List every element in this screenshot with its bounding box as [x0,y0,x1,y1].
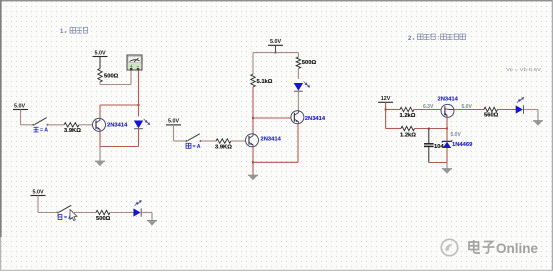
svg-text:1.2kΩ: 1.2kΩ [400,113,416,119]
svg-text:500Ω: 500Ω [302,60,317,66]
svg-text:500Ω: 500Ω [104,74,119,80]
svg-text:560Ω: 560Ω [484,113,499,119]
svg-text:1N4469: 1N4469 [452,142,473,148]
svg-text:1.2kΩ: 1.2kΩ [400,133,416,139]
svg-text:6.3V: 6.3V [423,104,434,110]
svg-text:3.9KΩ: 3.9KΩ [64,128,81,134]
svg-text:= A: = A [40,128,48,134]
svg-text:3.9KΩ: 3.9KΩ [215,145,232,151]
svg-text:500Ω: 500Ω [96,216,111,222]
svg-text:104: 104 [434,144,444,150]
svg-text:5.0V: 5.0V [32,189,43,195]
svg-text:5.0V: 5.0V [451,132,462,138]
svg-text:2N3414: 2N3414 [261,137,282,143]
svg-text:5.0V: 5.0V [14,103,25,109]
svg-text:Online: Online [496,241,538,256]
svg-text:2N3414: 2N3414 [107,123,128,129]
svg-text::: : [437,36,439,42]
svg-text:5.1kΩ: 5.1kΩ [257,79,273,85]
svg-text:5.0V: 5.0V [270,39,281,45]
svg-text:2N3414: 2N3414 [438,97,459,103]
svg-text:= A: = A [193,144,201,150]
svg-text:2N3414: 2N3414 [305,116,326,122]
svg-text:5.0V: 5.0V [94,50,105,56]
svg-text:12V: 12V [381,96,391,102]
svg-text:5.0V: 5.0V [168,119,179,125]
svg-text:Ve = Vb-0.6V: Ve = Vb-0.6V [506,67,542,73]
